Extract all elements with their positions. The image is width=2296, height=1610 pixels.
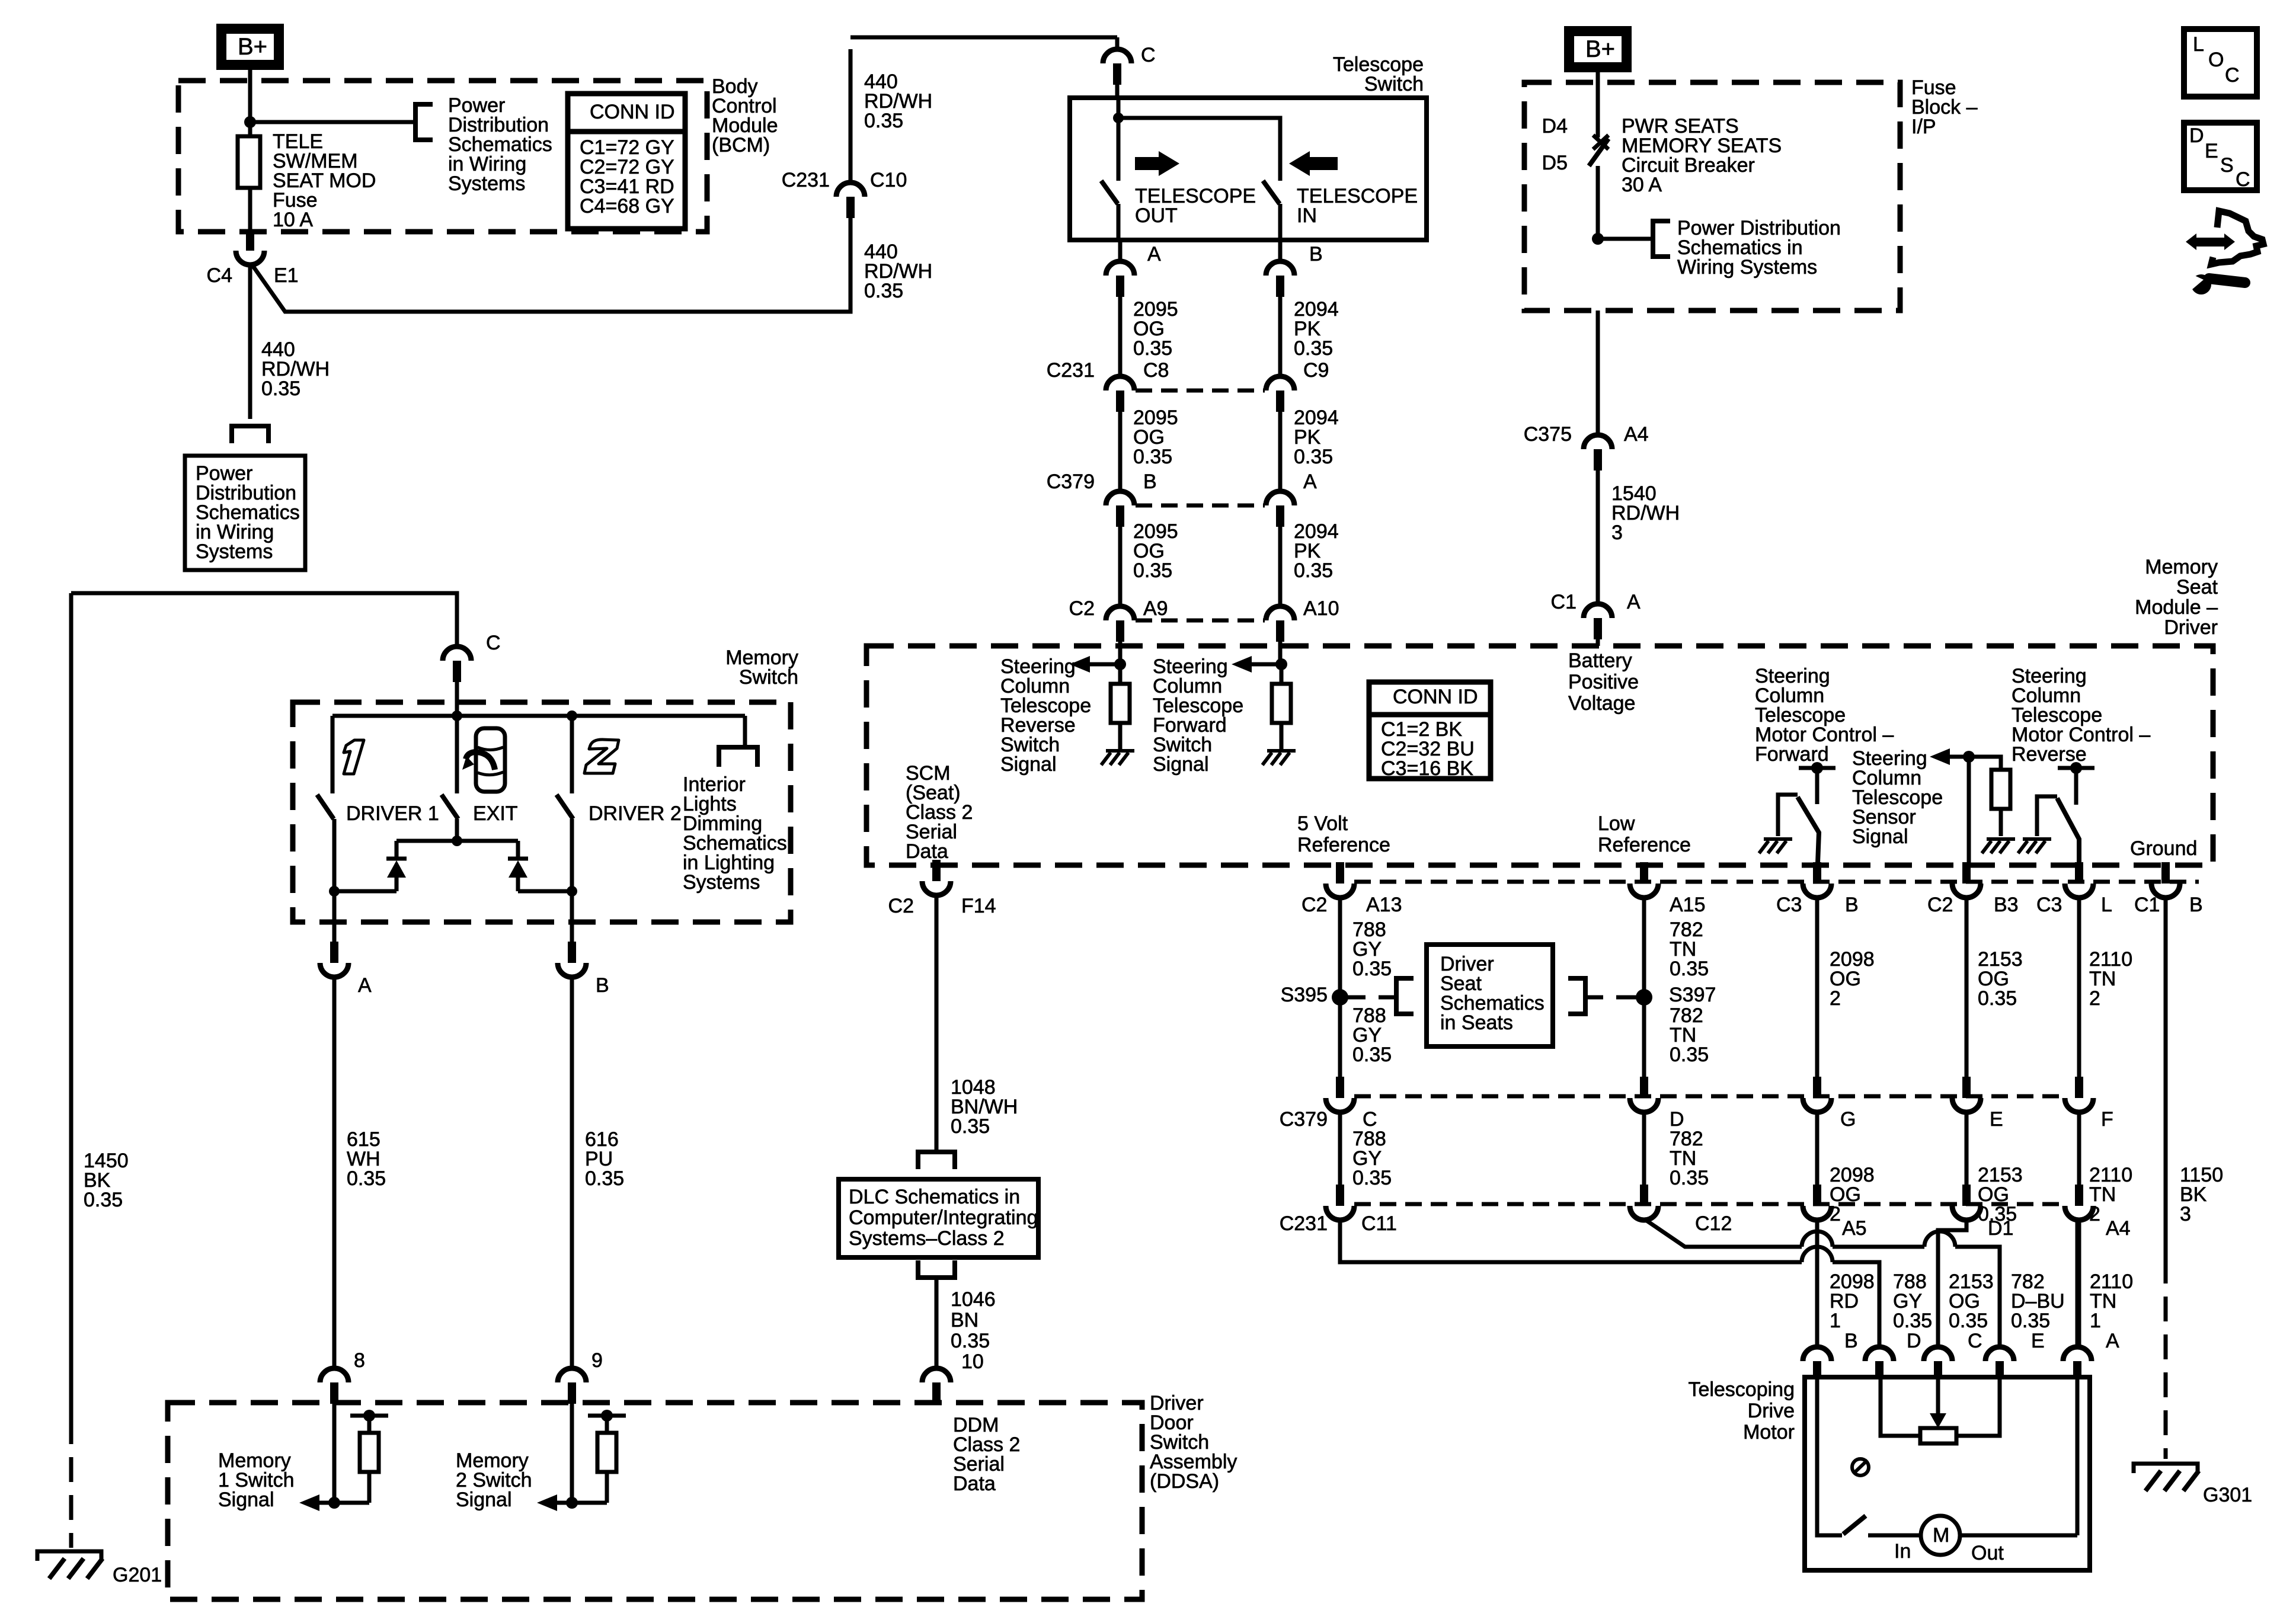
svg-text:C8: C8 xyxy=(1143,359,1169,382)
svg-text:0.35: 0.35 xyxy=(1893,1310,1932,1332)
svg-text:C4: C4 xyxy=(207,264,232,287)
svg-text:1: 1 xyxy=(2090,1310,2101,1332)
svg-text:Low: Low xyxy=(1598,812,1635,835)
svg-text:0.35: 0.35 xyxy=(864,280,903,302)
svg-text:C3: C3 xyxy=(1776,894,1802,916)
svg-text:Ground: Ground xyxy=(2130,837,2197,860)
svg-text:C2: C2 xyxy=(1302,894,1327,916)
svg-text:Forward: Forward xyxy=(1755,743,1829,766)
svg-text:0.35: 0.35 xyxy=(347,1167,386,1190)
svg-text:Signal: Signal xyxy=(218,1489,274,1511)
svg-text:0.35: 0.35 xyxy=(1133,446,1172,468)
svg-text:9: 9 xyxy=(591,1349,603,1372)
svg-text:S: S xyxy=(2220,154,2234,177)
svg-text:0.35: 0.35 xyxy=(951,1330,990,1352)
svg-text:0.35: 0.35 xyxy=(1978,987,2017,1010)
svg-text:0.35: 0.35 xyxy=(1352,958,1392,980)
svg-text:Data: Data xyxy=(906,840,948,863)
svg-text:0.35: 0.35 xyxy=(1294,337,1333,360)
svg-text:A9: A9 xyxy=(1143,597,1168,620)
svg-text:Memory: Memory xyxy=(2145,556,2218,578)
svg-text:0.35: 0.35 xyxy=(1670,1044,1709,1066)
svg-text:0.35: 0.35 xyxy=(1352,1167,1392,1189)
svg-text:Reference: Reference xyxy=(1297,834,1390,856)
svg-text:Positive: Positive xyxy=(1568,671,1639,693)
svg-text:BN: BN xyxy=(951,1309,978,1331)
svg-text:0.35: 0.35 xyxy=(2011,1310,2050,1332)
svg-text:B: B xyxy=(1309,243,1323,265)
svg-text:D: D xyxy=(1907,1330,1921,1352)
svg-text:B+: B+ xyxy=(1585,36,1615,62)
svg-text:C2: C2 xyxy=(1927,894,1953,916)
svg-text:Switch: Switch xyxy=(739,666,798,689)
svg-text:0.35: 0.35 xyxy=(951,1115,990,1138)
svg-text:CONN ID: CONN ID xyxy=(590,101,675,123)
svg-text:B: B xyxy=(1845,894,1859,916)
svg-text:5 Volt: 5 Volt xyxy=(1297,812,1348,835)
svg-text:EXIT: EXIT xyxy=(473,802,518,825)
svg-text:B+: B+ xyxy=(238,34,267,60)
svg-text:C12: C12 xyxy=(1695,1212,1732,1235)
svg-text:DRIVER 2: DRIVER 2 xyxy=(589,802,682,825)
svg-text:C2: C2 xyxy=(1069,597,1095,620)
svg-text:C: C xyxy=(1968,1330,1982,1352)
svg-text:Switch: Switch xyxy=(1364,73,1424,95)
svg-text:C4=68 GY: C4=68 GY xyxy=(580,195,674,217)
svg-text:C10: C10 xyxy=(870,169,907,191)
svg-text:Voltage: Voltage xyxy=(1568,692,1635,715)
svg-text:A: A xyxy=(1147,243,1161,265)
svg-text:2: 2 xyxy=(1830,987,1841,1010)
svg-text:A4: A4 xyxy=(2106,1217,2131,1240)
svg-text:G301: G301 xyxy=(2203,1484,2252,1506)
svg-text:1: 1 xyxy=(1830,1310,1841,1332)
svg-text:F14: F14 xyxy=(961,895,996,917)
svg-text:C1: C1 xyxy=(1551,591,1576,613)
svg-text:0.35: 0.35 xyxy=(1294,559,1333,582)
svg-text:0.35: 0.35 xyxy=(585,1167,624,1190)
svg-text:IN: IN xyxy=(1297,204,1317,227)
svg-text:L: L xyxy=(2101,894,2112,916)
svg-text:Out: Out xyxy=(1971,1542,2004,1564)
svg-text:C379: C379 xyxy=(1047,470,1095,493)
svg-text:DLC Schematics in: DLC Schematics in xyxy=(849,1186,1020,1208)
svg-text:C: C xyxy=(1141,44,1156,66)
svg-text:C: C xyxy=(486,632,501,654)
svg-text:(BCM): (BCM) xyxy=(712,134,770,156)
svg-text:C375: C375 xyxy=(1524,423,1572,446)
svg-text:Systems: Systems xyxy=(683,871,760,894)
svg-text:C9: C9 xyxy=(1303,359,1329,382)
svg-text:C3=16 BK: C3=16 BK xyxy=(1381,757,1473,780)
svg-text:Data: Data xyxy=(953,1473,996,1495)
svg-text:A10: A10 xyxy=(1303,597,1339,620)
svg-text:B: B xyxy=(596,974,609,997)
svg-text:Telescoping: Telescoping xyxy=(1688,1378,1795,1401)
svg-text:Signal: Signal xyxy=(456,1489,512,1511)
svg-text:Systems–Class 2: Systems–Class 2 xyxy=(849,1227,1005,1250)
svg-text:C379: C379 xyxy=(1280,1108,1328,1131)
svg-text:S395: S395 xyxy=(1281,984,1328,1006)
svg-text:C: C xyxy=(2225,64,2240,87)
svg-text:Drive: Drive xyxy=(1748,1400,1795,1422)
svg-text:10: 10 xyxy=(961,1350,984,1373)
svg-text:Reverse: Reverse xyxy=(2012,743,2087,766)
svg-text:C231: C231 xyxy=(1280,1212,1328,1235)
svg-text:3: 3 xyxy=(2180,1203,2191,1225)
svg-text:Module –: Module – xyxy=(2135,596,2218,619)
svg-text:A: A xyxy=(2106,1330,2119,1352)
svg-text:A: A xyxy=(1627,591,1641,613)
svg-text:G201: G201 xyxy=(113,1564,162,1586)
svg-text:C1: C1 xyxy=(2134,894,2160,916)
svg-text:I/P: I/P xyxy=(1911,116,1936,138)
svg-text:0.35: 0.35 xyxy=(864,110,903,132)
svg-text:B: B xyxy=(1143,470,1157,493)
svg-text:Wiring Systems: Wiring Systems xyxy=(1677,256,1817,279)
svg-text:Signal: Signal xyxy=(1000,753,1057,776)
svg-text:10 A: 10 A xyxy=(273,209,313,231)
svg-text:E: E xyxy=(2205,140,2218,162)
svg-text:0.35: 0.35 xyxy=(84,1189,123,1211)
svg-text:A: A xyxy=(1303,470,1317,493)
svg-text:C231: C231 xyxy=(782,169,830,191)
svg-text:B3: B3 xyxy=(1994,894,2019,916)
svg-text:0.35: 0.35 xyxy=(1133,337,1172,360)
svg-text:B: B xyxy=(2189,894,2203,916)
svg-text:B: B xyxy=(1844,1330,1858,1352)
svg-text:L: L xyxy=(2193,33,2204,56)
svg-text:0.35: 0.35 xyxy=(1670,958,1709,980)
svg-text:C2: C2 xyxy=(888,895,914,917)
svg-text:E: E xyxy=(1990,1108,2003,1131)
svg-text:DRIVER 1: DRIVER 1 xyxy=(346,802,439,825)
svg-text:3: 3 xyxy=(1611,521,1623,544)
svg-text:0.35: 0.35 xyxy=(1294,446,1333,468)
svg-text:C3: C3 xyxy=(2036,894,2062,916)
svg-text:CONN ID: CONN ID xyxy=(1393,686,1478,708)
svg-text:Motor: Motor xyxy=(1743,1421,1795,1443)
svg-text:In: In xyxy=(1894,1540,1911,1563)
svg-text:2: 2 xyxy=(2089,987,2100,1010)
svg-text:30 A: 30 A xyxy=(1622,174,1662,196)
svg-text:D: D xyxy=(2189,124,2204,147)
svg-text:A4: A4 xyxy=(1624,423,1649,446)
svg-text:C11: C11 xyxy=(1361,1212,1397,1235)
svg-text:8: 8 xyxy=(354,1349,365,1372)
svg-text:F: F xyxy=(2101,1108,2113,1131)
svg-text:A15: A15 xyxy=(1670,894,1706,916)
svg-text:0.35: 0.35 xyxy=(1670,1167,1709,1189)
svg-text:D4: D4 xyxy=(1542,115,1568,137)
svg-text:C231: C231 xyxy=(1047,359,1095,382)
svg-text:A13: A13 xyxy=(1366,894,1402,916)
svg-text:Signal: Signal xyxy=(1852,825,1908,848)
svg-text:Driver: Driver xyxy=(2164,616,2218,639)
svg-text:D1: D1 xyxy=(1988,1217,2013,1240)
svg-text:A: A xyxy=(358,974,372,997)
svg-text:Computer/Integrating: Computer/Integrating xyxy=(849,1206,1038,1229)
svg-text:0.35: 0.35 xyxy=(261,377,300,400)
svg-text:Seat: Seat xyxy=(2176,576,2218,598)
svg-text:E1: E1 xyxy=(274,264,299,287)
svg-text:(DDSA): (DDSA) xyxy=(1150,1470,1219,1493)
svg-text:in Seats: in Seats xyxy=(1440,1012,1513,1034)
svg-text:1046: 1046 xyxy=(951,1288,996,1311)
svg-text:M: M xyxy=(1933,1524,1949,1547)
svg-text:C: C xyxy=(2236,168,2250,191)
svg-text:Systems: Systems xyxy=(448,172,525,195)
svg-text:0.35: 0.35 xyxy=(1352,1044,1392,1066)
svg-text:D5: D5 xyxy=(1542,152,1568,174)
svg-text:Reference: Reference xyxy=(1598,834,1691,856)
svg-text:G: G xyxy=(1840,1108,1856,1131)
svg-text:0.35: 0.35 xyxy=(1949,1310,1988,1332)
svg-text:OUT: OUT xyxy=(1135,204,1178,227)
svg-text:A5: A5 xyxy=(1842,1217,1867,1240)
svg-text:0.35: 0.35 xyxy=(1133,559,1172,582)
svg-text:O: O xyxy=(2208,49,2224,71)
svg-text:Systems: Systems xyxy=(196,540,273,563)
svg-text:S397: S397 xyxy=(1669,984,1716,1006)
svg-text:E: E xyxy=(2031,1330,2045,1352)
svg-text:Signal: Signal xyxy=(1153,753,1209,776)
svg-text:Battery: Battery xyxy=(1568,649,1632,672)
